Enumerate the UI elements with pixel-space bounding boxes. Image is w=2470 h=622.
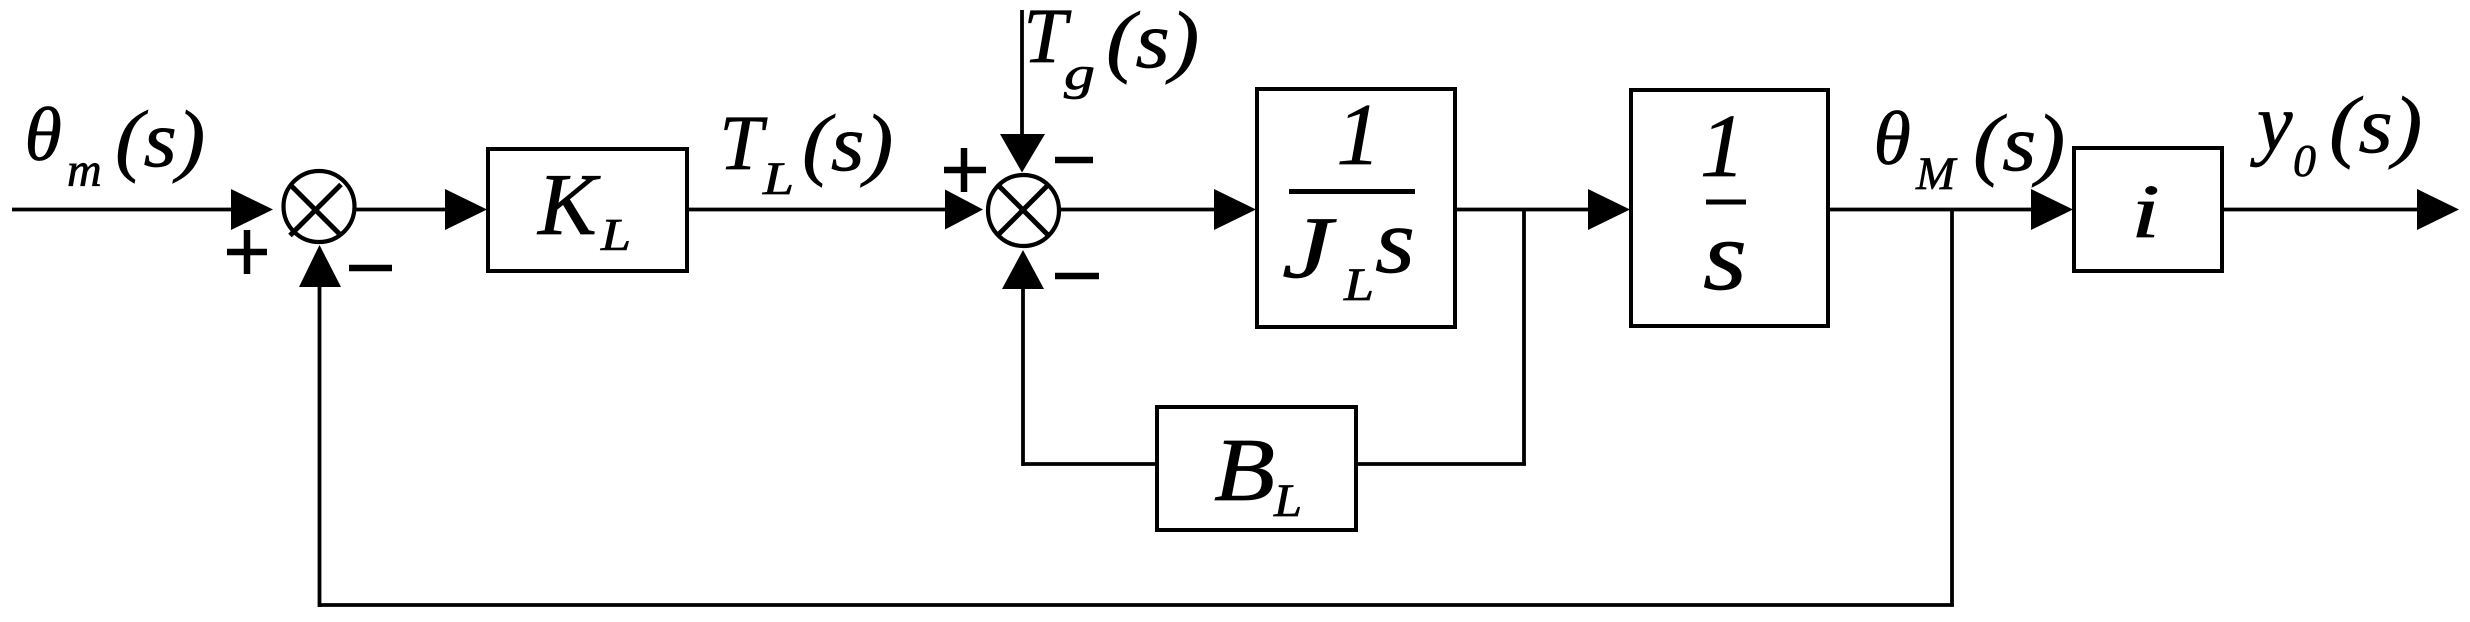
svg-text:K: K xyxy=(536,157,601,254)
svg-text:0: 0 xyxy=(2293,135,2316,186)
wire i to output xyxy=(2222,208,2423,212)
plus sign at S2 xyxy=(944,148,986,192)
svg-text:g: g xyxy=(1064,48,1095,100)
arrowhead down into S2 top xyxy=(1000,134,1045,173)
svg-text:(s): (s) xyxy=(2329,82,2422,170)
svg-text:i: i xyxy=(2131,170,2160,254)
wire input to summing junction S1 xyxy=(12,208,245,212)
block 1/(J_L s) xyxy=(1257,87,1455,327)
svg-text:s: s xyxy=(1375,190,1415,292)
arrowhead into 1/JLs xyxy=(1214,189,1256,230)
arrowhead output xyxy=(2417,189,2459,230)
svg-text:m: m xyxy=(67,144,102,197)
svg-text:(s): (s) xyxy=(115,96,205,184)
arrowhead up into S1 bottom xyxy=(299,245,341,287)
node y_0(s) output label xyxy=(2250,80,2422,186)
block i xyxy=(2074,148,2222,271)
svg-text:θ: θ xyxy=(25,93,62,177)
node T_L(s) label xyxy=(719,99,893,205)
svg-text:(s): (s) xyxy=(802,100,893,188)
svg-text:(s): (s) xyxy=(1106,0,1199,85)
block 1/s xyxy=(1631,90,1828,326)
arrowhead up into S2 bottom xyxy=(1002,250,1044,289)
summing junction S1 xyxy=(284,171,355,242)
wire K_L to summing junction S2 xyxy=(687,208,947,212)
block K_L xyxy=(488,149,687,271)
svg-text:L: L xyxy=(1273,475,1302,527)
arrowhead into K_L xyxy=(445,189,487,230)
wire 1/JLs to block 1/s xyxy=(1455,208,1594,212)
svg-text:L: L xyxy=(1343,259,1374,311)
arrowhead into S2 xyxy=(945,190,983,230)
minus sign at S1 bottom xyxy=(349,265,392,272)
arrowhead into S1 xyxy=(231,189,273,230)
svg-text:1: 1 xyxy=(1700,97,1745,196)
wire outer feedback branch after 1/s xyxy=(318,210,1954,608)
summing junction S2 xyxy=(988,175,1059,246)
svg-text:B: B xyxy=(1214,421,1275,520)
plus sign at S1 xyxy=(227,230,267,274)
wire 1/s to block i xyxy=(1828,208,2036,212)
node theta_M(s) label xyxy=(1874,97,2066,200)
minus sign at S2 bottom xyxy=(1055,273,1099,280)
svg-text:θ: θ xyxy=(1874,97,1911,181)
svg-text:L: L xyxy=(762,153,794,205)
svg-text:s: s xyxy=(1703,200,1747,311)
node T_g(s) label xyxy=(1023,0,1199,100)
block B_L xyxy=(1157,407,1356,530)
minus sign at S2 top xyxy=(1055,157,1093,164)
svg-text:y: y xyxy=(2250,80,2293,168)
svg-text:L: L xyxy=(600,210,631,260)
wire S2 to block 1/JLs xyxy=(1060,208,1220,212)
arrowhead into 1/s xyxy=(1588,189,1630,230)
wire T_g(s) vertical into S2 top xyxy=(1020,10,1024,138)
wire S1 to K_L block xyxy=(355,208,450,212)
svg-text:M: M xyxy=(1915,148,1958,200)
node theta_m(s) input label xyxy=(25,93,206,197)
svg-text:1: 1 xyxy=(1337,87,1381,184)
arrowhead into i xyxy=(2031,189,2073,230)
svg-text:T: T xyxy=(719,99,767,186)
wire branch node down to B_L input xyxy=(1356,210,1526,465)
svg-text:J: J xyxy=(1282,200,1337,297)
svg-text:(s): (s) xyxy=(1973,100,2065,188)
wire B_L output to S2 bottom xyxy=(1023,287,1157,466)
